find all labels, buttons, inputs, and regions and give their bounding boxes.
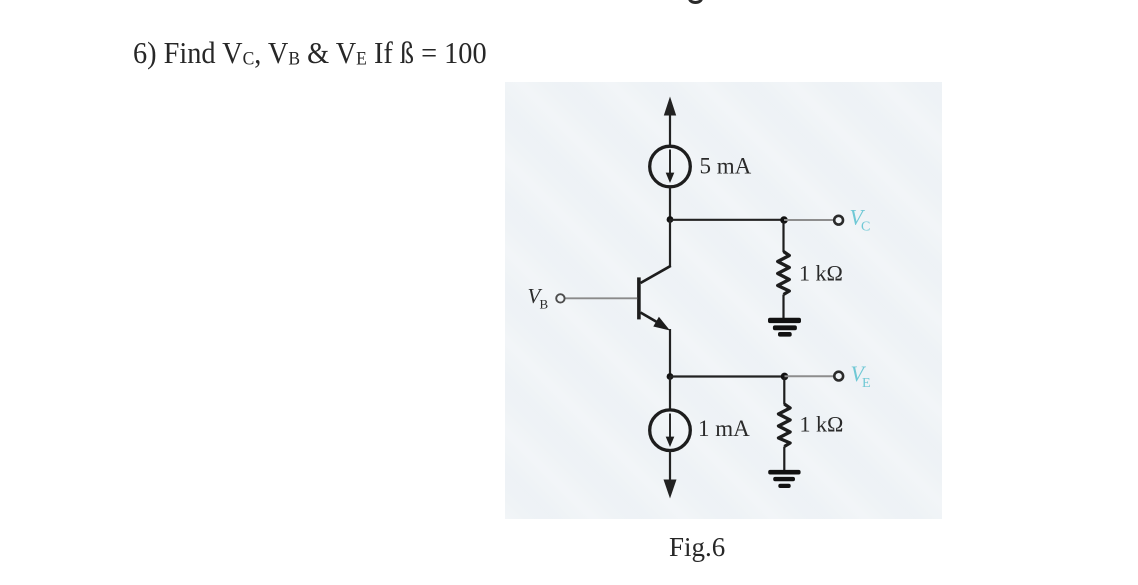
bottom sink arrow xyxy=(664,451,677,499)
svg-text:1 kΩ: 1 kΩ xyxy=(800,412,844,437)
terminal VB (open circle) xyxy=(556,294,564,302)
wire: source I1 to collector node xyxy=(669,187,671,220)
wire: emitter node to resistor R2 top xyxy=(670,375,785,377)
current source I2 1 mA xyxy=(650,410,691,451)
wire: node D down to resistor R2 xyxy=(783,378,785,405)
resistor R2 zigzag xyxy=(779,404,791,447)
svg-text:C: C xyxy=(861,220,870,235)
ground G2 xyxy=(768,470,800,488)
wire: resistor R2 to ground xyxy=(783,447,785,471)
transistor Q1 base bar xyxy=(637,277,641,319)
node D (resistor R2 top junction) xyxy=(781,373,789,381)
svg-text:5 mA: 5 mA xyxy=(700,154,752,179)
wire: node B down to resistor R1 xyxy=(782,222,784,252)
label VB xyxy=(528,284,549,312)
wire: collector node down to transistor collector xyxy=(641,220,671,284)
terminal VC (open circle) xyxy=(834,216,843,225)
svg-text:E: E xyxy=(862,376,871,391)
wire: emitter down to emitter node xyxy=(669,329,671,377)
problem heading text xyxy=(133,37,487,69)
wire: resistor R1 to ground xyxy=(782,295,784,319)
label VC xyxy=(850,205,871,235)
scanned-page tint background xyxy=(505,82,942,519)
svg-text:1 kΩ: 1 kΩ xyxy=(799,261,843,286)
node C (emitter junction) xyxy=(667,373,674,380)
svg-text:1 mA: 1 mA xyxy=(698,416,750,441)
label VE xyxy=(851,361,871,391)
base input wire xyxy=(565,297,637,299)
wire: collector node to resistor node xyxy=(670,219,784,221)
node A (collector junction) xyxy=(667,216,674,223)
resistor R1 zigzag xyxy=(778,252,790,295)
node B (resistor R1 top junction) xyxy=(780,216,788,224)
transistor Q1 emitter with arrow xyxy=(641,313,671,331)
figure caption Fig.6 xyxy=(669,534,725,561)
wire: stub to VC terminal xyxy=(784,219,834,221)
partial glyph cut off at top edge xyxy=(688,0,703,4)
svg-text:B: B xyxy=(540,297,549,312)
top supply arrow xyxy=(664,97,676,147)
ground G1 xyxy=(768,318,801,337)
terminal VE (open circle) xyxy=(834,372,843,381)
wire: stub to VE terminal xyxy=(785,375,834,377)
wire: emitter node down to current source I2 xyxy=(669,377,671,411)
current source I1 5 mA xyxy=(650,146,691,187)
